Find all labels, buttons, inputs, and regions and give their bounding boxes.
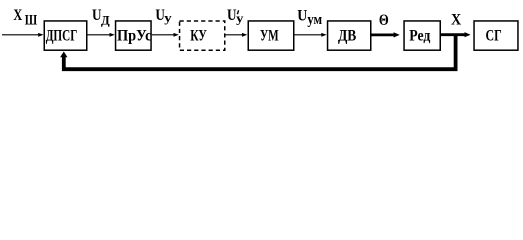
wire Ред to СГ (thick arrow) bbox=[441, 32, 471, 37]
svg-text:ДПСГ: ДПСГ bbox=[46, 27, 78, 44]
node X output label bbox=[451, 11, 461, 28]
block Ред bbox=[404, 21, 440, 50]
wire feedback: tap on X node down, across bottom, up into ДПСГ bbox=[60, 35, 456, 69]
wire УМ to ДВ bbox=[295, 33, 327, 37]
svg-text:Ш: Ш bbox=[25, 13, 38, 29]
svg-text:УМ: УМ bbox=[260, 27, 279, 44]
svg-text:ПрУс: ПрУс bbox=[117, 27, 152, 44]
svg-text:U: U bbox=[227, 7, 237, 24]
node Uу' label bbox=[227, 7, 244, 25]
svg-text:X: X bbox=[13, 7, 22, 24]
wire ДВ to Ред (thick arrow) bbox=[372, 32, 400, 37]
svg-text:у: у bbox=[236, 10, 244, 25]
svg-text:U: U bbox=[297, 7, 307, 24]
svg-text:Ред: Ред bbox=[409, 27, 430, 44]
block ДВ bbox=[328, 21, 371, 50]
svg-text:Θ: Θ bbox=[379, 12, 389, 29]
wire ДПСГ to ПрУс bbox=[88, 33, 115, 37]
block КУ (dashed) bbox=[180, 21, 225, 50]
svg-text:Д: Д bbox=[101, 13, 110, 27]
wire ПрУс to КУ bbox=[152, 33, 179, 37]
svg-text:X: X bbox=[451, 11, 461, 28]
svg-text:СГ: СГ bbox=[486, 27, 502, 44]
wire КУ to УМ bbox=[226, 33, 248, 37]
node Uд label bbox=[92, 7, 110, 27]
block УМ bbox=[248, 21, 294, 50]
node Θ label bbox=[379, 12, 389, 29]
wire input arrow into ДПСГ bbox=[2, 33, 44, 37]
svg-text:КУ: КУ bbox=[190, 27, 207, 44]
node Uум label bbox=[297, 7, 322, 28]
block ПрУс bbox=[116, 21, 152, 50]
svg-text:ум: ум bbox=[307, 12, 322, 28]
block СГ bbox=[474, 21, 518, 50]
block ДПСГ bbox=[44, 21, 87, 50]
svg-text:у: у bbox=[164, 10, 172, 25]
node Uу label bbox=[155, 7, 172, 25]
node Xш input label bbox=[13, 7, 37, 29]
svg-text:ДВ: ДВ bbox=[338, 27, 356, 44]
